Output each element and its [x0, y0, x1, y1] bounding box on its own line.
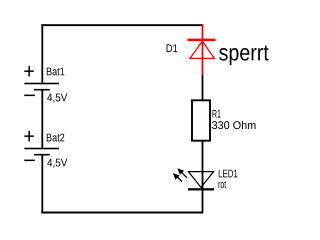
wire Bat1 negative to Bat2 positive	[41, 91, 43, 148]
label Bat1	[47, 68, 65, 76]
wire Bat2 negative to bottom-left corner	[41, 156, 43, 214]
label R1	[213, 110, 221, 118]
value rot	[219, 181, 227, 188]
wire left side (top corner down to Bat1 positive plate)	[41, 24, 43, 82]
label Bat2	[47, 134, 65, 142]
resistor R1 (box symbol)	[192, 100, 210, 140]
label LED1	[219, 170, 238, 178]
LED LED1	[173, 168, 214, 190]
label D1	[167, 44, 178, 52]
diode D1 (red, reverse biased)	[188, 39, 216, 59]
wire R1 to LED1	[202, 142, 204, 191]
wire D1 anode red segment	[202, 59, 204, 76]
battery Bat2	[24, 131, 59, 161]
value 4,5V (Bat2)	[47, 159, 67, 168]
wire LED1 cathode to bottom wire	[202, 191, 204, 213]
wire top-right red segment to D1 cathode	[202, 24, 204, 38]
annotation sperrt	[219, 46, 269, 66]
wire bottom (node: Bat2- to LED1 cathode)	[41, 212, 203, 214]
wire D1 to R1	[202, 75, 204, 100]
battery Bat1	[24, 66, 59, 96]
value 4,5V (Bat1)	[47, 94, 67, 103]
wire top (node: Bat1+ to D1 cathode)	[41, 24, 203, 26]
value 330 Ohm	[212, 121, 256, 129]
